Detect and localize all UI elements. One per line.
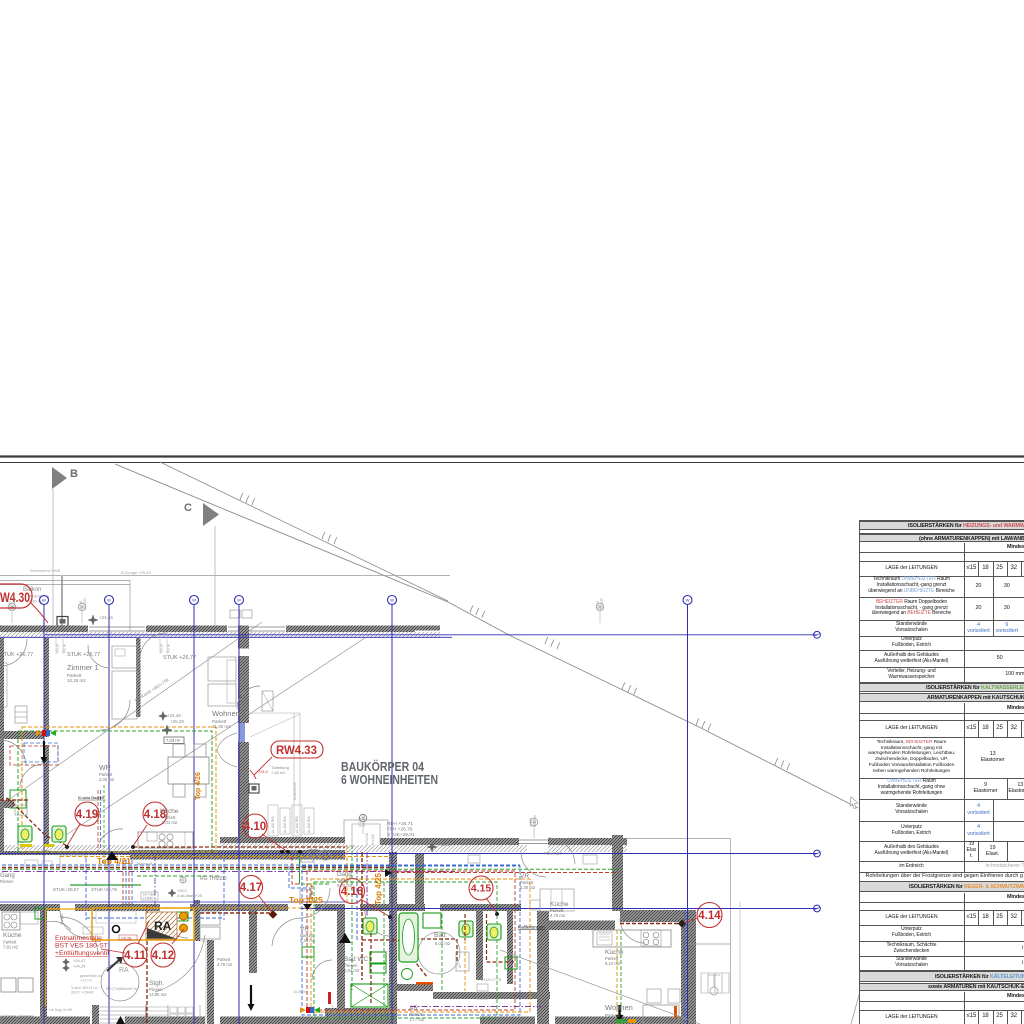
svg-text:STUK+25,57: STUK+25,57 (53, 887, 79, 892)
svg-text:RSL90: RSL90 (160, 643, 164, 653)
svg-text:8,10 m2: 8,10 m2 (605, 961, 621, 966)
svg-text:RGL225: RGL225 (83, 598, 87, 610)
svg-text:B.Zumge +25,45: B.Zumge +25,45 (121, 570, 151, 575)
svg-text:VR: VR (520, 873, 529, 880)
svg-text:Entnahmestelle: Entnahmestelle (55, 935, 102, 942)
svg-text:BST VES 180-ST: BST VES 180-ST (55, 943, 108, 950)
svg-text:STUK +26,77: STUK +26,77 (67, 652, 100, 658)
svg-text:+24,40: +24,40 (438, 842, 452, 847)
svg-text:+24,46: +24,46 (99, 615, 113, 620)
svg-text:14,95 m2: 14,95 m2 (149, 992, 167, 997)
svg-text:+25,28: +25,28 (170, 719, 184, 724)
svg-text:+24,47: +24,47 (73, 958, 86, 963)
svg-text:4.11: 4.11 (124, 950, 146, 962)
svg-text:W: W (237, 598, 241, 603)
svg-text:6,64 m2: 6,64 m2 (344, 968, 360, 973)
svg-text:US 2B: US 2B (121, 937, 132, 941)
svg-text:RGL225: RGL225 (600, 598, 604, 610)
svg-text:4.19: 4.19 (76, 809, 98, 821)
svg-text:W: W (107, 598, 111, 603)
svg-text:VR: VR (300, 926, 309, 933)
svg-text:B: B (70, 468, 78, 480)
svg-text:10,25 m2: 10,25 m2 (67, 678, 86, 683)
svg-text:+Entlüftungsventil: +Entlüftungsventil (55, 950, 109, 957)
svg-text:8,01 m2: 8,01 m2 (162, 820, 178, 825)
svg-text:Küche: Küche (160, 808, 179, 815)
svg-text:RA: RA (154, 919, 172, 933)
svg-text:RSL90: RSL90 (63, 643, 67, 653)
svg-text:i.m bug. b+90: i.m bug. b+90 (49, 1008, 72, 1012)
svg-text:6,08 m2: 6,08 m2 (435, 941, 451, 946)
svg-text:AL 190 RGL: AL 190 RGL (271, 815, 275, 833)
svg-text:Bad: Bad (434, 932, 446, 939)
svg-text:Kl.ania Bauteil: Kl.ania Bauteil (78, 795, 104, 800)
svg-text:7,45 m2: 7,45 m2 (271, 770, 286, 775)
svg-text:21,30 m2: 21,30 m2 (212, 724, 231, 729)
svg-text:W: W (192, 598, 196, 603)
svg-text:STUK+25,78: STUK+25,78 (91, 887, 117, 892)
svg-text:STUK+29,01: STUK+29,01 (387, 832, 415, 838)
svg-text:Bad WC: Bad WC (344, 956, 369, 963)
svg-text:Zimmer 1: Zimmer 1 (67, 663, 99, 672)
svg-text:W: W (390, 598, 394, 603)
svg-text:+24,29: +24,29 (73, 964, 86, 969)
svg-text:STUK +26,77: STUK +26,77 (0, 652, 33, 658)
svg-text:Kaltleitungen: Kaltleitungen (518, 925, 545, 930)
svg-text:UP: UP (458, 964, 462, 968)
svg-text:4.10: 4.10 (244, 821, 266, 833)
svg-text:RA: RA (119, 967, 129, 974)
svg-text:1,77 m2: 1,77 m2 (409, 1017, 425, 1022)
svg-text:9,75 m2: 9,75 m2 (337, 883, 353, 888)
svg-text:AL 190 RGL: AL 190 RGL (307, 815, 311, 833)
svg-text:4.17: 4.17 (240, 882, 262, 894)
svg-text:Wohnen: Wohnen (605, 1003, 633, 1012)
svg-text:FFH +26,76: FFH +26,76 (387, 827, 413, 833)
svg-text:5,30 m2: 5,30 m2 (520, 885, 536, 890)
svg-text:Tarmwolf: Tarmwolf (136, 861, 153, 866)
svg-text:7TB+26/17: 7TB+26/17 (331, 1005, 335, 1022)
svg-text:Top 4/25: Top 4/25 (374, 873, 383, 905)
svg-text:Küche: Küche (550, 901, 569, 908)
svg-text:+25,2: +25,2 (177, 889, 187, 893)
svg-text:+24,4: +24,4 (258, 770, 268, 774)
svg-text:+24,46: +24,46 (167, 713, 181, 718)
svg-text:RW4.33: RW4.33 (276, 745, 317, 757)
svg-text:6 WOHNEINHEITEN: 6 WOHNEINHEITEN (341, 772, 438, 787)
svg-text:W4.30: W4.30 (0, 590, 30, 605)
svg-text:L1 B 80: L1 B 80 (143, 896, 153, 900)
svg-text:WR: WR (99, 765, 111, 772)
svg-text:Küche: Küche (3, 932, 22, 939)
svg-text:5,28 m2: 5,28 m2 (300, 938, 316, 943)
svg-text:26/17 +29/46: 26/17 +29/46 (71, 991, 93, 995)
svg-text:AL 190 RGL: AL 190 RGL (283, 815, 287, 833)
svg-text:7,81 m2: 7,81 m2 (3, 945, 19, 950)
svg-text:AL 190 RGL: AL 190 RGL (295, 815, 299, 833)
svg-text:STUK +26,77: STUK +26,77 (163, 655, 196, 661)
svg-text:RSL90: RSL90 (56, 643, 60, 653)
svg-text:Küche: Küche (605, 949, 624, 956)
svg-text:48,10 m2: 48,10 m2 (605, 1018, 624, 1023)
svg-text:W: W (686, 598, 690, 603)
svg-text:4,76 m2: 4,76 m2 (217, 962, 233, 967)
svg-text:RGL120: RGL120 (371, 834, 375, 846)
svg-text:Wechselrat HWB: Wechselrat HWB (30, 568, 61, 573)
svg-text:4.14: 4.14 (698, 910, 721, 922)
svg-text:RSL90: RSL90 (167, 643, 171, 653)
svg-text:ALXL130: ALXL130 (365, 833, 369, 846)
svg-text:W: W (42, 598, 46, 603)
svg-text:Top 4/25: Top 4/25 (289, 895, 323, 905)
svg-text:gravmekb.ch: gravmekb.ch (80, 974, 102, 978)
svg-text:10,59 m2: 10,59 m2 (293, 990, 308, 994)
svg-text:7,03 m²: 7,03 m² (166, 738, 181, 743)
svg-text:RFH +26,71: RFH +26,71 (387, 821, 413, 827)
svg-text:4.15: 4.15 (471, 883, 492, 895)
svg-text:Top 4/26: Top 4/26 (195, 772, 202, 800)
svg-text:RGL225: RGL225 (533, 815, 537, 827)
svg-text:+1,0 m: +1,0 m (80, 979, 92, 983)
svg-text:RG TH5500: RG TH5500 (200, 876, 227, 882)
svg-text:Wohnen: Wohnen (212, 709, 240, 718)
svg-text:C: C (184, 502, 192, 514)
svg-text:FBH 7,00: FBH 7,00 (544, 851, 562, 856)
svg-text:RA (Tür)88x/eft.7e: RA (Tür)88x/eft.7e (106, 987, 137, 991)
svg-text:ETU3 27,78: ETU3 27,78 (481, 978, 501, 982)
svg-text:Fliesen: Fliesen (0, 879, 14, 884)
svg-text:3-stuf. RG11 i.b.: 3-stuf. RG11 i.b. (71, 986, 98, 990)
svg-text:Stgh.: Stgh. (149, 980, 164, 987)
svg-text:sicherheit 90: sicherheit 90 (293, 782, 297, 800)
svg-text:2,06 m2: 2,06 m2 (99, 777, 115, 782)
svg-text:4,76 m2: 4,76 m2 (550, 913, 566, 918)
svg-text:3-stu.Bart9+25: 3-stu.Bart9+25 (177, 894, 202, 898)
svg-text:RGL225: RGL225 (362, 815, 366, 827)
svg-text:4.12: 4.12 (152, 950, 174, 962)
